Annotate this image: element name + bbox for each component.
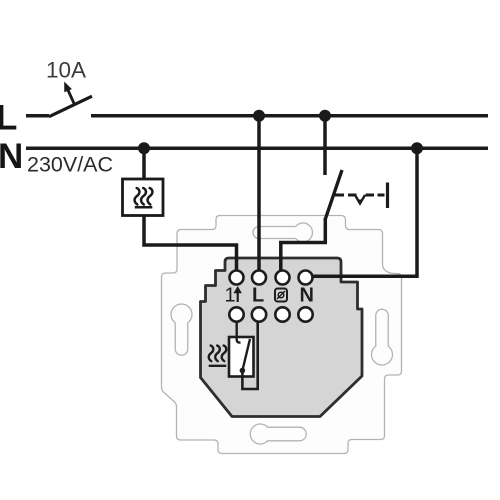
svg-text:230V/AC: 230V/AC (27, 153, 113, 177)
svg-text:N: N (300, 285, 314, 307)
svg-text:N: N (0, 137, 23, 176)
svg-text:10A: 10A (46, 58, 86, 83)
svg-text:L: L (0, 99, 17, 138)
svg-text:1: 1 (225, 285, 236, 307)
svg-text:L: L (252, 285, 264, 307)
